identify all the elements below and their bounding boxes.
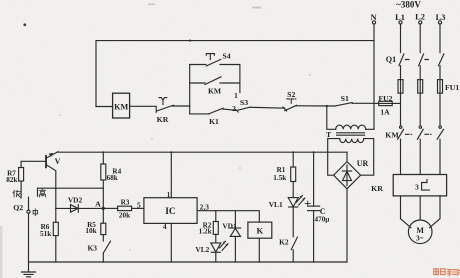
wire KR to block bbox=[172, 105, 189, 107]
wire block left rail bbox=[189, 65, 191, 114]
transformer secondary bbox=[340, 139, 364, 143]
motor M bbox=[408, 220, 432, 244]
wire L3 mid bbox=[439, 66, 441, 80]
wire L3 low bbox=[439, 93, 441, 126]
label mid bbox=[33, 209, 38, 216]
switch S3 bbox=[237, 107, 251, 111]
base wire bbox=[21, 161, 46, 167]
wire L2 upper bbox=[419, 24, 421, 53]
wire bridge to bottom rail bbox=[346, 189, 348, 262]
label low bbox=[13, 190, 20, 197]
resistor R6 bbox=[55, 208, 57, 222]
wire L2 mid bbox=[419, 66, 421, 80]
wire L1 upper bbox=[400, 24, 402, 53]
wire KM to KR bbox=[130, 106, 157, 112]
switch K3 bbox=[102, 235, 104, 241]
fuse FU1 b bbox=[418, 80, 423, 94]
pushbutton S4 bbox=[190, 64, 206, 66]
wire DC top rail bbox=[58, 151, 347, 153]
scan speckles bbox=[0, 226, 2, 278]
watermark bbox=[434, 269, 460, 276]
relay K bbox=[248, 222, 272, 238]
capacitor C bbox=[313, 152, 315, 206]
IC U1 bbox=[144, 198, 197, 224]
wire L1 mid bbox=[400, 66, 402, 80]
wire L1 to KR bbox=[400, 139, 402, 174]
wire block right rail bbox=[239, 65, 241, 93]
ground bbox=[28, 262, 30, 272]
fuse FU1 a bbox=[398, 80, 403, 94]
aux contact KM bbox=[190, 82, 205, 84]
node A bbox=[102, 207, 105, 210]
transformer T primary bbox=[327, 106, 336, 129]
wire N vertical bbox=[373, 24, 375, 129]
resistor R5 bbox=[102, 208, 104, 223]
node dot on top rail bbox=[189, 40, 191, 42]
contactor coil KM bbox=[96, 106, 113, 108]
resistor R4 bbox=[102, 152, 104, 164]
wire S1 to N line bbox=[352, 102, 374, 104]
wire bridge to top rail bbox=[346, 152, 348, 161]
pin 1 bbox=[170, 152, 172, 198]
resistor R1 bbox=[292, 152, 294, 167]
label high bbox=[37, 188, 39, 196]
resistor R2 bbox=[215, 211, 217, 222]
motor leads bbox=[401, 196, 411, 228]
thermal relay KR box bbox=[393, 175, 446, 196]
transistor V bbox=[45, 156, 47, 168]
pin 4 bbox=[170, 223, 172, 262]
wire L3 to KR bbox=[439, 139, 441, 174]
resistor R3 bbox=[103, 207, 117, 209]
wire L2 to KR bbox=[419, 139, 421, 174]
transformer core bbox=[337, 133, 365, 135]
wire L1 low bbox=[400, 93, 402, 126]
diode VD2 bbox=[56, 207, 104, 209]
wire L3 upper bbox=[439, 24, 441, 53]
diode VD1 bbox=[234, 211, 236, 228]
wire S2 to S1 bbox=[297, 105, 335, 107]
wire S3 to S2 bbox=[251, 106, 285, 109]
wire control top rail bbox=[96, 41, 374, 107]
resistor R7 bbox=[19, 168, 24, 182]
junction primary tap bbox=[326, 105, 328, 107]
wire L2 low bbox=[419, 93, 421, 126]
relay contact K1 bbox=[190, 113, 209, 115]
wire DC bottom rail bbox=[29, 261, 348, 263]
thermal contact KR (NC) bbox=[157, 105, 174, 111]
fuse FU1 c bbox=[438, 80, 443, 94]
